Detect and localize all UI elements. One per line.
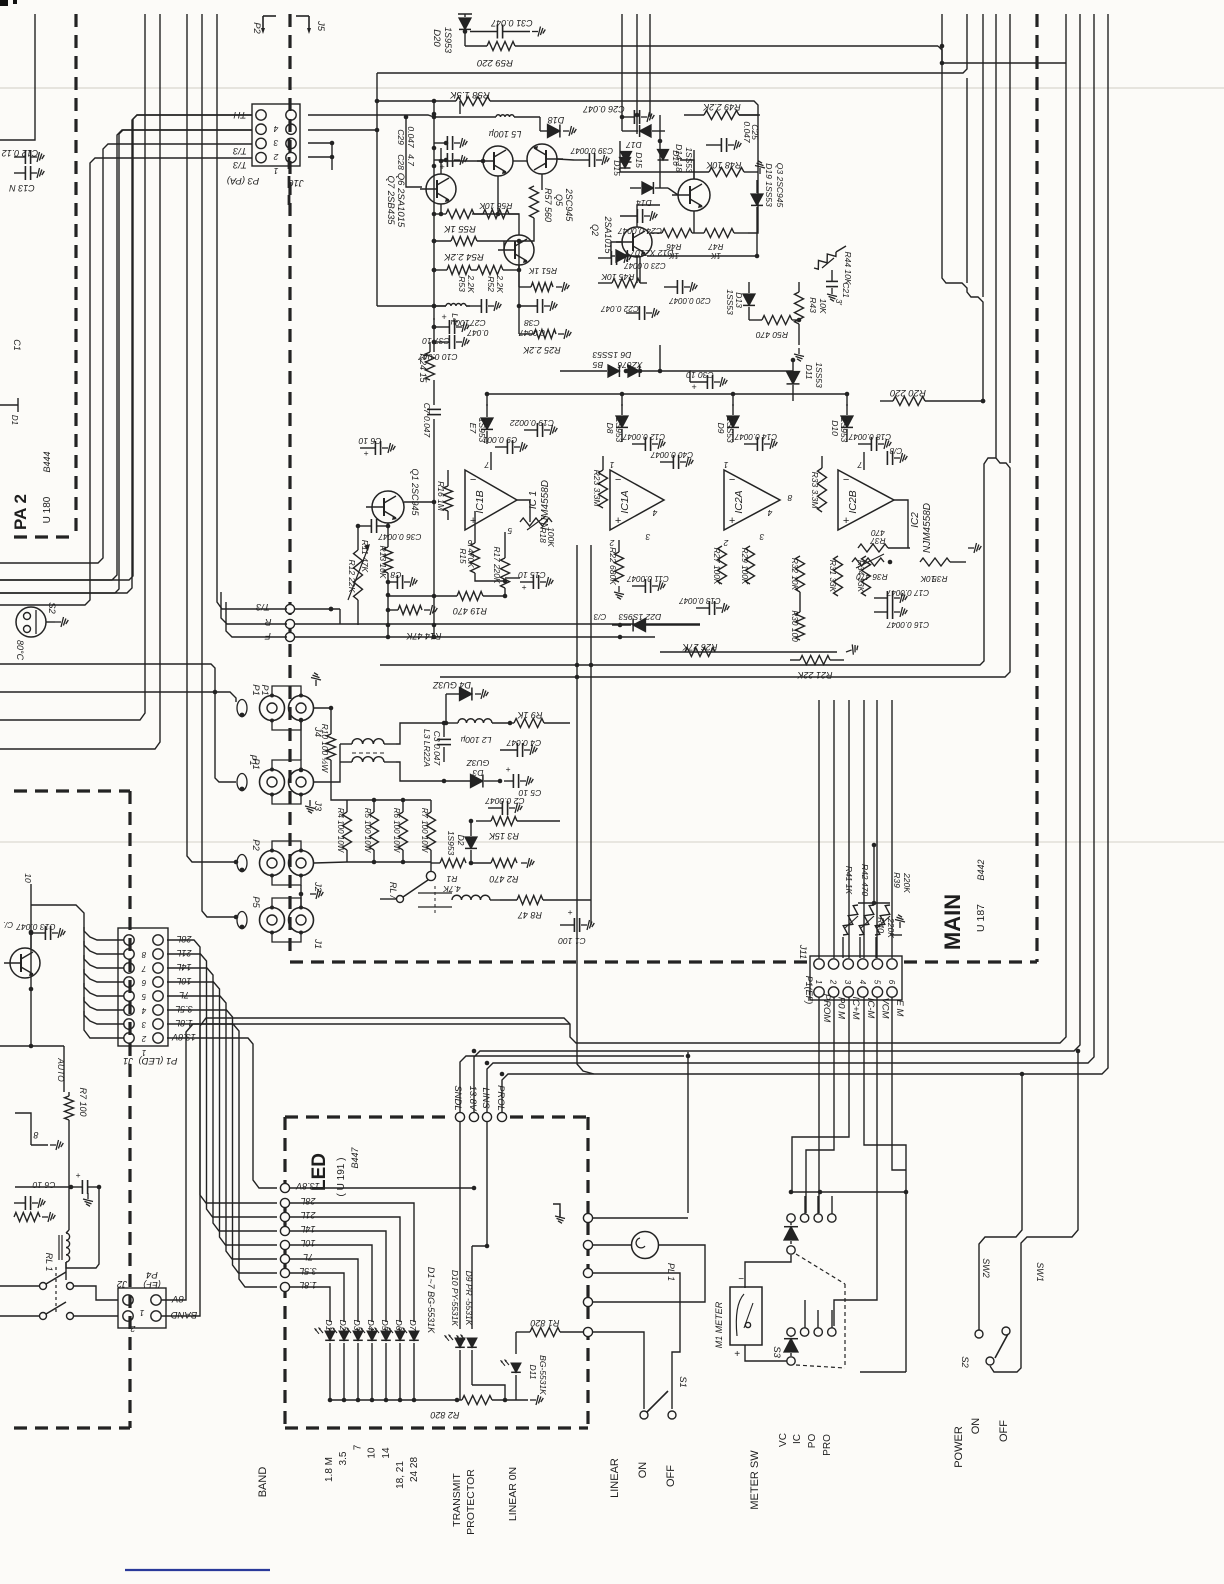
resistor R52 xyxy=(471,266,519,294)
junction em 526 xyxy=(386,524,391,529)
resistor R1 4.7K xyxy=(431,859,466,895)
junction C3 bot xyxy=(442,779,447,784)
pot R42 470 xyxy=(859,864,874,935)
label B xyxy=(33,1130,38,1140)
op-amp IC1A xyxy=(610,470,664,530)
LED board pin 10L xyxy=(280,1238,315,1250)
svg-text:10: 10 xyxy=(23,873,33,883)
label PRO xyxy=(822,1434,833,1456)
coax pair P1/J4 xyxy=(237,673,323,737)
svg-text:D15: D15 xyxy=(634,152,644,168)
svg-text:1: 1 xyxy=(609,460,614,470)
svg-text:C20 0.0047: C20 0.0047 xyxy=(669,296,711,305)
wire J11 riser 2 xyxy=(833,700,835,958)
pin5 IC1B xyxy=(507,526,512,536)
svg-text:7L: 7L xyxy=(303,1252,313,1262)
label PO xyxy=(807,1434,818,1449)
capacitor C10 xyxy=(418,335,469,362)
capacitor C26 xyxy=(582,104,654,124)
svg-text:1: 1 xyxy=(723,460,728,470)
junction Q7 col xyxy=(439,159,444,164)
junction R58 left xyxy=(432,99,437,104)
junction d983_401 xyxy=(981,399,986,404)
svg-text:R1 820: R1 820 xyxy=(530,1318,559,1328)
PA2 board label xyxy=(11,451,53,529)
svg-text:C38: C38 xyxy=(524,318,540,328)
label D14-18 xyxy=(674,144,694,173)
wire diode stub x622 xyxy=(621,394,623,406)
svg-text:BAND: BAND xyxy=(171,1309,198,1320)
wire edge 1218 xyxy=(593,1217,688,1219)
meter bus xyxy=(792,1190,908,1195)
svg-text:U 180: U 180 xyxy=(42,496,53,523)
svg-text:4: 4 xyxy=(767,508,772,518)
svg-text:D8: D8 xyxy=(605,423,615,434)
svg-text:P1 (LED): P1 (LED) xyxy=(138,1055,177,1066)
label J1 7L xyxy=(179,990,189,1000)
resistor R22 680K xyxy=(608,540,624,599)
label SW2 xyxy=(981,1258,991,1278)
svg-text:5: 5 xyxy=(141,992,146,1001)
pot R11 47K xyxy=(348,540,370,600)
wire LED row 28L xyxy=(290,1203,414,1322)
resistor R10 100 xyxy=(320,720,336,773)
wire bank to R1 xyxy=(430,862,432,863)
svg-text:J5: J5 xyxy=(315,20,326,32)
junction D9 bus xyxy=(503,1398,508,1403)
resistor R53 xyxy=(434,266,476,294)
scan fold line middle xyxy=(0,841,1224,843)
svg-text:1.8L: 1.8L xyxy=(175,1018,193,1028)
svg-text:7: 7 xyxy=(484,460,489,470)
LED board pin 13.8V xyxy=(280,1181,319,1193)
svg-text:R56 10K: R56 10K xyxy=(479,201,512,211)
LED D7 xyxy=(399,1320,419,1400)
svg-text:D19 1SS53: D19 1SS53 xyxy=(764,163,774,207)
svg-text:LINEAR 0N: LINEAR 0N xyxy=(507,1467,519,1521)
pin7 IC1B xyxy=(484,452,491,470)
svg-text:100K: 100K xyxy=(546,527,556,547)
LED board edge terminal y1273 xyxy=(583,1268,592,1277)
capacitor C22 xyxy=(601,304,660,320)
transistor Q2 xyxy=(590,215,652,257)
svg-text:8: 8 xyxy=(33,1130,38,1140)
svg-text:R10 100 ½W: R10 100 ½W xyxy=(320,724,330,774)
svg-text:D22 1S953: D22 1S953 xyxy=(618,612,661,622)
wire harness 10L xyxy=(167,982,277,1245)
junction L5 xyxy=(432,112,437,117)
junction C8 xyxy=(386,580,391,585)
resistor R12 22K xyxy=(347,526,363,625)
wire Q7 emitter to R55 xyxy=(440,204,442,214)
power resistor R6 xyxy=(392,800,408,862)
junction PA2 bus xyxy=(432,212,437,217)
bottom-left board top edge xyxy=(14,789,130,792)
junction 793 371 xyxy=(791,358,796,363)
wire D19 down xyxy=(756,225,758,256)
switch S2 power xyxy=(959,1327,1010,1369)
wire D12 context xyxy=(639,256,641,283)
pot R44 xyxy=(814,246,853,285)
pot R18 100K xyxy=(520,516,556,547)
label LINEAR xyxy=(609,1458,621,1498)
svg-text:( U 191 ): ( U 191 ) xyxy=(336,1158,347,1197)
svg-text:D11: D11 xyxy=(804,365,814,380)
transformer core xyxy=(340,739,396,762)
wire J10 pin3 right xyxy=(308,142,332,144)
svg-text:R51 1K: R51 1K xyxy=(528,266,557,276)
svg-text:C13 0.0047: C13 0.0047 xyxy=(679,596,721,605)
Q7 Q6 labels xyxy=(385,173,406,228)
connector J11 xyxy=(797,944,902,1005)
svg-text:S2: S2 xyxy=(46,602,57,614)
svg-text:D10 PY-5531K: D10 PY-5531K xyxy=(450,1270,460,1326)
capacitor C1 100 xyxy=(558,900,594,946)
svg-text:3: 3 xyxy=(759,532,764,542)
wire edge 1245 xyxy=(593,1244,631,1246)
label SW1 xyxy=(1035,1262,1045,1282)
svg-text:B442: B442 xyxy=(976,859,986,880)
capacitor C13a xyxy=(9,166,45,193)
wire bus v160 xyxy=(0,14,160,749)
svg-text:3.5: 3.5 xyxy=(338,1451,349,1465)
svg-text:C14 0.0047: C14 0.0047 xyxy=(734,432,777,441)
pot R36 470 xyxy=(852,554,888,582)
wire top rail right xyxy=(942,62,1066,64)
svg-text:R23 3.3M: R23 3.3M xyxy=(592,470,602,508)
svg-text:D1: D1 xyxy=(10,415,19,425)
junction D6 row2 xyxy=(638,369,643,374)
svg-text:VCM: VCM xyxy=(879,997,890,1018)
LED D9 xyxy=(457,1246,506,1400)
svg-text:P1: P1 xyxy=(250,684,261,696)
capacitor C30 10 xyxy=(686,370,727,392)
junction D4 xyxy=(444,721,449,726)
svg-text:P1: P1 xyxy=(248,754,258,765)
svg-text:1S953: 1S953 xyxy=(839,418,849,443)
wire opamp top rail xyxy=(487,393,847,395)
switch contact b xyxy=(0,1302,74,1320)
svg-text:Q5: Q5 xyxy=(554,194,564,207)
resistor R59 xyxy=(465,42,942,69)
MAIN board boundary left edge xyxy=(288,14,291,958)
wire C37 stub xyxy=(433,318,435,320)
diode D8 xyxy=(605,404,628,443)
terminal LINS xyxy=(480,1087,492,1121)
wire C26 to D17 xyxy=(621,117,623,131)
junction Q4 xyxy=(517,268,522,273)
svg-text:R11 47K: R11 47K xyxy=(360,540,370,573)
LED D10 xyxy=(445,1122,465,1400)
wire J11 IC-M xyxy=(864,997,906,1192)
svg-text:J1: J1 xyxy=(312,938,323,949)
svg-text:T/3: T/3 xyxy=(232,159,246,170)
junction d577_677 xyxy=(575,675,580,680)
switch S3 pole2 xyxy=(787,1310,836,1336)
svg-text:2: 2 xyxy=(723,538,729,548)
svg-text:3: 3 xyxy=(141,1020,146,1029)
svg-text:R59 220: R59 220 xyxy=(476,57,513,68)
wire meter bus down xyxy=(905,1192,907,1372)
svg-text:D2: D2 xyxy=(456,835,466,846)
svg-text:3: 3 xyxy=(273,138,278,148)
svg-text:R55 1K: R55 1K xyxy=(443,223,475,234)
junction bank1 xyxy=(372,798,377,803)
junction v31 a xyxy=(29,930,34,935)
svg-text:−: − xyxy=(843,474,850,486)
resistor R32 10K xyxy=(790,556,805,592)
svg-text:Q3 2SC945: Q3 2SC945 xyxy=(775,163,785,208)
wire J11 riser 1 xyxy=(818,700,820,958)
junction SW1 xyxy=(1076,1049,1081,1054)
capacitor C23 xyxy=(598,251,666,270)
junction Q6 base xyxy=(481,159,486,164)
wire R43 gnd xyxy=(798,336,800,345)
wire right vB xyxy=(966,78,968,283)
svg-text:R30 100: R30 100 xyxy=(790,610,800,642)
wire bus v217 to T3 xyxy=(217,14,287,609)
capacitor C2 xyxy=(485,796,524,815)
svg-text:C17 0.0047: C17 0.0047 xyxy=(886,588,929,597)
svg-text:R54 2.2K: R54 2.2K xyxy=(444,251,484,262)
capacitor C28 4.7 xyxy=(396,153,467,172)
wire Q3 emitter xyxy=(693,211,695,233)
wire P4 pin1 right xyxy=(161,1292,186,1300)
svg-text:+: + xyxy=(506,764,511,774)
svg-text:C18 0.0047: C18 0.0047 xyxy=(848,432,891,441)
junction d236_862 xyxy=(234,860,239,865)
wire F terminal riser xyxy=(226,602,287,637)
svg-text:D18: D18 xyxy=(548,115,565,125)
svg-text:Q6 2SA1015: Q6 2SA1015 xyxy=(395,173,406,228)
resistor R46 xyxy=(650,229,692,261)
LED D6 xyxy=(385,1320,405,1400)
diode D17 xyxy=(622,125,665,150)
svg-text:3: 3 xyxy=(645,532,650,542)
wire J10 pin2 left xyxy=(0,144,252,563)
label J11 P0 M xyxy=(836,997,847,1019)
label D1-7 type xyxy=(426,1267,436,1334)
svg-text:D6 1SS53: D6 1SS53 xyxy=(592,350,631,360)
junction T/3 xyxy=(329,607,334,612)
svg-text:3′: 3′ xyxy=(834,299,843,305)
junction d591_665 xyxy=(589,663,594,668)
svg-text:1S953: 1S953 xyxy=(446,831,456,856)
wire J10 pin1 left xyxy=(0,158,252,605)
wire R cluster up xyxy=(873,845,875,903)
wire contact b to J2 xyxy=(74,1315,118,1317)
transistor Q4 xyxy=(498,235,534,265)
capacitor C24 xyxy=(618,209,662,236)
svg-text:R1: R1 xyxy=(446,874,457,884)
label POWER xyxy=(953,1426,965,1468)
terminal R xyxy=(264,616,294,629)
junction bus434 502 xyxy=(432,500,437,505)
wire R42 down xyxy=(859,937,861,958)
diode D15 xyxy=(612,158,631,177)
resistor R57 xyxy=(530,186,539,218)
svg-text:1: 1 xyxy=(273,166,278,176)
LED board right edge xyxy=(586,1117,589,1428)
op-amp IC2A xyxy=(724,470,780,530)
svg-text:POWER: POWER xyxy=(953,1426,965,1468)
svg-text:R52: R52 xyxy=(486,276,496,292)
wire R49 right lead xyxy=(739,114,758,116)
wire J10 pin3 left xyxy=(0,130,252,580)
svg-text:R14 47K: R14 47K xyxy=(405,631,441,641)
label PROTECTOR xyxy=(465,1469,477,1535)
diode D4 xyxy=(432,680,488,701)
svg-text:10L: 10L xyxy=(176,976,191,986)
wire riser 13.8V xyxy=(474,14,1080,1112)
junction d434_342 xyxy=(432,340,437,345)
svg-text:D11: D11 xyxy=(528,1365,538,1380)
svg-text:1SS53: 1SS53 xyxy=(725,417,735,443)
svg-text:D4 GU3Z: D4 GU3Z xyxy=(432,680,471,690)
junction d434_270 xyxy=(432,268,437,273)
resistor R48 xyxy=(690,160,758,177)
svg-text:PROM: PROM xyxy=(821,994,832,1023)
svg-text:R2 470: R2 470 xyxy=(489,874,518,884)
svg-text:+: + xyxy=(364,448,369,458)
svg-text:R31 33K: R31 33K xyxy=(828,560,838,593)
pin6 IC1B xyxy=(467,538,472,548)
wire J4 right xyxy=(314,708,331,720)
LED D1 xyxy=(315,1320,335,1400)
svg-text:21L: 21L xyxy=(300,1210,316,1220)
junction R20 xyxy=(981,399,986,404)
svg-text:1S953: 1S953 xyxy=(443,27,453,53)
svg-text:−: − xyxy=(615,474,622,486)
svg-text:4: 4 xyxy=(858,980,867,985)
svg-text:14L: 14L xyxy=(300,1224,315,1234)
svg-text:GU3Z: GU3Z xyxy=(466,758,489,768)
capacitor C4 xyxy=(500,738,541,757)
junction C36 xyxy=(356,524,361,529)
svg-text:R5 100 10W: R5 100 10W xyxy=(363,808,372,854)
svg-text:VC: VC xyxy=(778,1433,789,1447)
resistor R24 15 xyxy=(418,342,435,384)
resistor R19 470 xyxy=(388,592,505,617)
wire Q6 emitter xyxy=(497,176,499,214)
svg-text:R: R xyxy=(264,616,271,627)
diode D20 xyxy=(431,14,472,53)
svg-text:PO: PO xyxy=(807,1434,818,1449)
svg-text:18, 21: 18, 21 xyxy=(395,1461,406,1489)
junction 637 115 xyxy=(635,113,640,118)
svg-text:E M: E M xyxy=(894,1000,905,1017)
svg-text:+: + xyxy=(522,582,527,592)
wire L4 row left xyxy=(377,305,446,307)
wire J1 feed s3 xyxy=(84,955,124,968)
transistor Q3 xyxy=(672,179,710,211)
svg-text:MAIN: MAIN xyxy=(940,894,965,950)
wire AUTO riser xyxy=(63,1046,65,1092)
capacitor C16 xyxy=(874,605,929,629)
svg-text:10: 10 xyxy=(367,1447,378,1459)
svg-text:SW2: SW2 xyxy=(981,1258,991,1278)
resistor R15 470K xyxy=(458,511,480,573)
LED board top edge right part xyxy=(510,1115,588,1118)
svg-text:1.8L: 1.8L xyxy=(299,1280,317,1290)
junction 757 256 xyxy=(755,254,760,259)
relay coil RL1 b xyxy=(44,1233,70,1280)
pin labels IC1A xyxy=(609,460,657,548)
diode D14 xyxy=(630,182,668,208)
pot R41 1K xyxy=(843,866,858,935)
junction top rail xyxy=(940,61,945,66)
wire J11 IC+M xyxy=(792,997,849,1192)
svg-text:C28: C28 xyxy=(396,154,406,170)
junction R17 596 xyxy=(503,594,508,599)
junction D22 xyxy=(618,623,623,628)
wire J11 EM xyxy=(892,997,906,1170)
label band 7 xyxy=(352,1444,363,1450)
junction PA2 bus xyxy=(432,304,437,309)
IC1 label xyxy=(528,480,551,530)
LED board top edge left part xyxy=(285,1115,450,1118)
svg-text:470: 470 xyxy=(871,528,885,538)
svg-text:M1 METER: M1 METER xyxy=(714,1301,724,1348)
svg-text:R3 15K: R3 15K xyxy=(488,831,519,841)
svg-text:IC2B: IC2B xyxy=(847,490,859,513)
wire D2 junction xyxy=(470,820,472,822)
junction top rail x847 xyxy=(845,392,850,397)
svg-text:OFF: OFF xyxy=(665,1465,677,1487)
label 10 xyxy=(23,873,33,883)
svg-text:4: 4 xyxy=(141,1006,146,1015)
wire LINS inner xyxy=(472,1122,487,1246)
label band 10 xyxy=(367,1447,378,1459)
wire Q4 col xyxy=(518,265,520,334)
junction d620_637 xyxy=(618,635,623,640)
junction 692 xyxy=(213,690,218,695)
junction R36 xyxy=(888,560,893,565)
label BAND xyxy=(257,1467,269,1498)
resistor R7 100 xyxy=(65,1087,89,1130)
svg-text:C6 10: C6 10 xyxy=(358,436,381,446)
resistor small left xyxy=(14,1212,55,1222)
capacitor C13c xyxy=(679,596,730,615)
svg-text:D7: D7 xyxy=(408,1320,418,1331)
junction d301_770 xyxy=(299,768,304,773)
label LINEAR ON2 xyxy=(507,1467,519,1521)
terminal T/3 xyxy=(255,601,294,614)
LED board edge terminal y1245 xyxy=(583,1240,592,1249)
svg-text:3.5L: 3.5L xyxy=(175,1004,193,1014)
inductor L2 xyxy=(444,719,510,745)
Q3 labels xyxy=(764,163,785,208)
transistor Q5 xyxy=(527,144,563,174)
wire J10 pin4 left xyxy=(0,115,252,580)
svg-text:IC2: IC2 xyxy=(910,512,921,528)
wire D6 out up xyxy=(659,345,661,371)
wire right vC xyxy=(982,14,984,297)
junction v31 b xyxy=(29,987,34,992)
capacitor C36 xyxy=(358,519,421,542)
svg-text:IC+M: IC+M xyxy=(850,997,861,1020)
svg-text:8V: 8V xyxy=(171,1293,184,1304)
junction R10 top xyxy=(329,706,334,711)
transistor Q6 xyxy=(477,146,513,176)
resistor R20 xyxy=(880,387,983,406)
svg-text:R36 470: R36 470 xyxy=(856,572,888,582)
capacitor C15 link xyxy=(505,577,520,579)
svg-text:BAND: BAND xyxy=(257,1467,269,1498)
svg-text:METER SW: METER SW xyxy=(749,1450,761,1510)
resistor R47 xyxy=(692,229,748,261)
svg-text:C11 0.0047: C11 0.0047 xyxy=(627,574,669,583)
